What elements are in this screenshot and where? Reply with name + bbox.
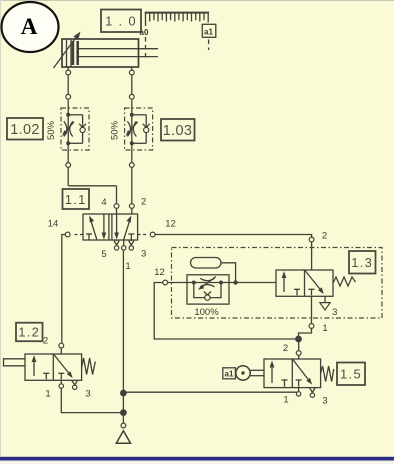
wire timer pilot feed bbox=[154, 283, 295, 340]
top window edge bbox=[0, 0, 394, 2]
svg-text:3: 3 bbox=[85, 389, 90, 400]
svg-text:2: 2 bbox=[141, 197, 146, 208]
svg-text:3: 3 bbox=[332, 307, 337, 318]
valve 1.3 (3/2 way, pilot operated, spring return) bbox=[276, 270, 333, 296]
valve 1.1 (5/2 way, pneumatic pilots) bbox=[83, 214, 138, 240]
junction supply lower bbox=[120, 409, 127, 416]
distance ruler bbox=[145, 12, 209, 26]
left box passage 1->2 bbox=[33, 359, 35, 377]
svg-text:4: 4 bbox=[101, 197, 106, 208]
wire junction to valve 1.5 port 2 bbox=[296, 342, 301, 359]
timer throttle box bbox=[187, 275, 229, 304]
blocked port (T) left box bbox=[282, 379, 288, 381]
compressed air source bbox=[116, 423, 130, 443]
svg-text:3: 3 bbox=[322, 396, 327, 407]
label 1.03 bbox=[161, 119, 195, 141]
air reservoir (timer 1.3) bbox=[191, 258, 236, 283]
wire supply to valve 1.5 port 1 bbox=[123, 391, 298, 393]
svg-text:1.3: 1.3 bbox=[351, 255, 373, 270]
pilot 14 bbox=[65, 232, 83, 237]
svg-text:a1: a1 bbox=[225, 370, 234, 379]
exhaust port 3 bbox=[129, 240, 134, 250]
right box exhaust 2->3 bbox=[54, 355, 71, 376]
timer assembly 1.3 enclosure bbox=[172, 248, 383, 319]
sensor label a1 bbox=[223, 368, 236, 379]
node a1 bbox=[202, 24, 216, 50]
exhaust port 3 (valve 1.3) bbox=[320, 296, 330, 310]
svg-text:100%: 100% bbox=[194, 307, 219, 318]
svg-text:2: 2 bbox=[283, 343, 288, 354]
blocked port (T) right box bbox=[309, 288, 315, 290]
wire pilot 14 to valve 1.2 port 2 bbox=[62, 235, 66, 344]
svg-text:3: 3 bbox=[141, 249, 146, 260]
wire valve 1.1 port 1 to supply bbox=[122, 250, 124, 423]
blocked port 5 (T) bbox=[86, 233, 92, 235]
timer 1.3 pilot input port bbox=[163, 280, 168, 285]
svg-text:14: 14 bbox=[48, 219, 59, 230]
wire throttle to valve 1.3 bbox=[229, 280, 276, 284]
svg-text:1.03: 1.03 bbox=[163, 123, 192, 139]
junction supply upper bbox=[120, 390, 127, 397]
svg-text:1.5: 1.5 bbox=[340, 367, 362, 382]
label 1.5 bbox=[337, 363, 365, 386]
cushion adjust arrow bbox=[54, 32, 81, 69]
label 1.3 bbox=[349, 251, 376, 274]
svg-text:A: A bbox=[21, 14, 38, 39]
right box exhaust 2->3 bbox=[305, 271, 322, 292]
svg-text:2: 2 bbox=[43, 336, 48, 347]
exhaust port 3 (valve 1.5) bbox=[310, 388, 315, 397]
svg-text:1.02: 1.02 bbox=[10, 122, 39, 138]
svg-text:1: 1 bbox=[45, 389, 50, 400]
check valve bypass (timer 1.3) bbox=[194, 283, 221, 301]
right box exhaust 2->3 bbox=[293, 360, 310, 382]
svg-text:a1: a1 bbox=[204, 28, 213, 37]
blocked port (T) right box bbox=[296, 379, 302, 381]
svg-text:1.1: 1.1 bbox=[65, 192, 87, 207]
svg-text:2: 2 bbox=[322, 231, 327, 242]
svg-text:12: 12 bbox=[165, 219, 176, 230]
exhaust port 3 (valve 1.2) bbox=[72, 381, 77, 390]
roller actuator (valve 1.5) bbox=[236, 366, 264, 380]
pushbutton actuator (valve 1.2) bbox=[4, 358, 26, 367]
flow control valve 1.02 (one-way) bbox=[61, 108, 89, 150]
left box passage 1->2 bbox=[283, 275, 285, 293]
blocked port (T) left box bbox=[43, 372, 49, 374]
svg-text:1: 1 bbox=[322, 323, 327, 334]
svg-text:1.2: 1.2 bbox=[18, 325, 40, 340]
svg-text:12: 12 bbox=[154, 267, 165, 278]
svg-text:5: 5 bbox=[101, 249, 106, 260]
spring (valve 1.2) bbox=[82, 358, 96, 375]
valve 1.5 port 1 connection bbox=[296, 388, 300, 396]
valve 1.2 port 1 connection bbox=[59, 380, 63, 388]
wire 1.03 to valve 1.1 port 2 bbox=[129, 150, 134, 214]
wire valve 1.2 port 1 to supply junction bbox=[61, 388, 120, 412]
label 1.1 bbox=[63, 189, 90, 209]
left window edge bbox=[0, 0, 2, 457]
svg-text:50%: 50% bbox=[110, 120, 121, 140]
svg-text:1: 1 bbox=[283, 395, 288, 406]
wire valve 1.3 port 1 down bbox=[299, 296, 314, 336]
window bottom border bbox=[0, 457, 394, 461]
junction node (1.5 output / timer feed) bbox=[295, 336, 302, 343]
cylinder 1.0 (double-acting, adjustable cushioning) bbox=[62, 39, 158, 67]
node a0 bbox=[140, 28, 149, 58]
left box passage 1->2 bbox=[271, 364, 273, 383]
valve 1.5 (3/2 way, roller, spring return) bbox=[264, 359, 321, 388]
blocked port (T) right box bbox=[58, 372, 64, 374]
pilot 12 bbox=[138, 232, 156, 237]
spring (valve 1.3) bbox=[333, 277, 356, 286]
svg-text:1 . 0: 1 . 0 bbox=[105, 14, 137, 29]
label 1.02 bbox=[7, 118, 43, 140]
valve 1.2 port 2 connection bbox=[59, 343, 64, 354]
label 1.2 bbox=[16, 323, 43, 342]
wire timer input to throttle bbox=[168, 282, 188, 284]
throttle (timer 1.3) bbox=[187, 277, 229, 290]
wire cylinder right port down bbox=[129, 67, 134, 108]
wire pilot 12 to valve 1.3 port 2 bbox=[155, 235, 314, 271]
exhaust port 5 bbox=[114, 240, 119, 250]
supply port 1 stub bbox=[122, 240, 126, 250]
flow control valve 1.03 (one-way) bbox=[125, 108, 153, 150]
spring (valve 1.5) bbox=[321, 366, 334, 382]
marker circle A bbox=[2, 2, 59, 52]
valve 1.2 (3/2 way, pushbutton, spring return) bbox=[25, 354, 82, 380]
svg-text:1: 1 bbox=[125, 261, 130, 272]
svg-text:50%: 50% bbox=[46, 120, 57, 140]
wire cylinder left port down bbox=[66, 67, 71, 108]
label 1.0 bbox=[101, 10, 141, 33]
left box: 1->4 and 2->3 bbox=[91, 220, 97, 240]
svg-text:a0: a0 bbox=[140, 28, 149, 37]
right box: 1->2 and 4->5 bbox=[116, 215, 118, 237]
wire 1.02 to valve 1.1 port 4 bbox=[66, 150, 119, 214]
blocked port (T) left box bbox=[294, 288, 300, 290]
blocked port 3 (T) bbox=[128, 233, 134, 235]
